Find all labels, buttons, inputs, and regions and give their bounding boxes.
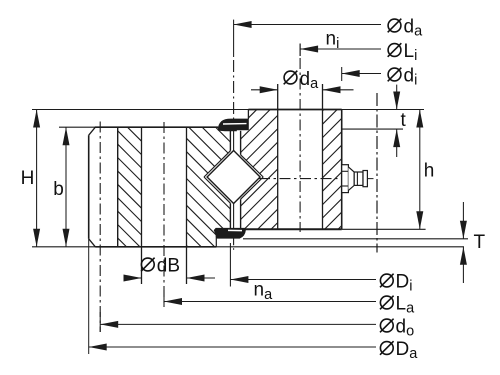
t reference line — [342, 128, 403, 130]
bottom seal inner slit — [228, 229, 242, 231]
label diameter Li — [388, 44, 401, 57]
leader for inner bolt circle Li — [300, 48, 381, 50]
outer ring bore face upper segment — [229, 131, 231, 151]
gear root line — [117, 127, 119, 247]
outer ring top face extension for b — [59, 126, 95, 128]
bottom extension line (outer ring bottom face extended) — [32, 246, 464, 248]
leader for inner bore diameter di — [342, 73, 381, 75]
dimension h vertical line — [419, 110, 421, 230]
leader for outer diameter Da — [89, 346, 376, 348]
outer ring bolt hole centerline — [163, 122, 165, 307]
svg-text:h: h — [424, 161, 435, 182]
label diameter da (raceway) — [388, 19, 401, 32]
outer ring bolt hole wall left — [141, 127, 143, 284]
outer ring top face — [95, 126, 219, 128]
bottom seal — [214, 228, 245, 238]
inner ring raceway lower line — [241, 177, 264, 199]
svg-text:t: t — [401, 110, 407, 131]
outer ring raceway upper line — [204, 151, 230, 177]
leader for outer bolt circle La — [164, 301, 376, 303]
label diameter dB — [141, 258, 154, 271]
top extension line (inner ring top face extended) — [32, 109, 424, 111]
outer ring section hatch band A (between gear root and bolt hole) — [118, 77, 142, 288]
outer ring seal notch wall — [215, 228, 217, 247]
svg-text:H: H — [21, 168, 35, 189]
outer ring gear tip face — [88, 135, 90, 239]
inner ring bolt hole wall left — [277, 84, 279, 229]
label diameter Da — [380, 342, 393, 355]
label diameter di — [388, 68, 401, 81]
label diameter do — [380, 319, 393, 332]
inner ring raceway upper line — [241, 155, 264, 177]
inner ring section hatch band D (bolt hole to bore) — [323, 65, 342, 272]
label diameter da (hole) — [284, 71, 297, 84]
inner ring bottom face (thick) — [245, 228, 341, 230]
outer ring bottom face (thick) — [95, 246, 216, 248]
top seal inner slit — [223, 123, 247, 125]
h bottom extension line (inner ring bottom extended) — [342, 228, 426, 230]
inner ring left face lower segment — [240, 199, 242, 228]
inner ring bore face — [341, 110, 343, 230]
label diameter La — [380, 296, 393, 309]
gear bottom chamfer — [89, 239, 96, 247]
gear top chamfer — [89, 127, 96, 135]
dimension outer ring hole diameter dB — [126, 277, 142, 279]
leader for gear pitch diameter do — [100, 323, 376, 325]
gear pitch centerline — [99, 122, 101, 333]
leader tick for Li — [299, 44, 301, 57]
grease nipple — [342, 165, 349, 193]
label diameter Di — [380, 274, 393, 287]
leader tick for do — [99, 312, 101, 332]
outer ring bolt hole wall right — [186, 127, 188, 284]
svg-text:b: b — [53, 179, 64, 200]
leader tick for La — [163, 290, 165, 307]
leader for raceway diameter da — [234, 24, 381, 26]
dimension t arrows — [396, 85, 398, 110]
grease nipple centerline — [259, 178, 342, 180]
outer ring bore face lower segment — [229, 203, 231, 228]
svg-text:T: T — [474, 232, 486, 253]
inner ring bolt hole centerline — [299, 44, 301, 57]
dimension b vertical line — [65, 127, 67, 247]
dimension inner ring hole diameter da — [251, 89, 278, 91]
seal bottom extension line for T — [243, 238, 468, 240]
inner ring bolt hole wall right — [322, 84, 324, 229]
inner ring section hatch band C (face to bolt hole) — [241, 48, 278, 286]
inner ring left face upper segment — [240, 131, 242, 155]
dimension T arrows — [462, 202, 464, 239]
bearing axis reference line — [376, 93, 378, 253]
dimension H vertical line — [36, 110, 38, 247]
inner ring face above top seal — [247, 110, 249, 120]
crossed roller (section diamond) — [207, 151, 260, 204]
outer ring section hatch band B (between bolt hole and raceway) — [187, 58, 231, 316]
leader for outer bore diameter Di — [230, 279, 376, 281]
svg-text:dB: dB — [157, 256, 180, 277]
inner ring top face (thick) — [248, 109, 341, 111]
roller raceway centerline — [233, 20, 235, 57]
top seal — [218, 119, 248, 131]
outer ring raceway lower line — [204, 177, 230, 203]
